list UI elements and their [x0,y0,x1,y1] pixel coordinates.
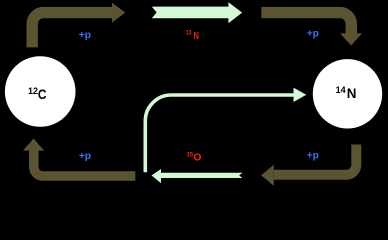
arrow up into 12C (bottom-left olive bent arrow) [23,139,135,177]
arrow 13N beta-decay (top green notched arrow) [152,2,242,23]
arrow 15O decay (bottom green notched arrow, pointing left) [152,169,243,183]
svg-text:+p: +p [307,151,319,162]
svg-text:+p: +p [79,30,91,41]
svg-text:N: N [194,31,199,42]
label 13N (red) [186,31,199,42]
svg-text:14: 14 [336,85,346,95]
svg-text:+p: +p [307,29,319,40]
arrow +p to 14N (top-right olive bent arrow) [261,13,362,46]
node 14N (white circle) [313,59,382,128]
node 12C (white circle) [5,56,76,127]
svg-text:13: 13 [186,31,192,37]
arrow 15N branch (thin green curved arrow into 14N) [145,88,306,173]
svg-text:12: 12 [28,86,38,96]
arrow 14N down-left (bottom-right olive bent arrow) [261,145,356,186]
svg-text:N: N [347,85,357,101]
label 15O (red) [186,152,201,164]
svg-text:C: C [38,86,47,102]
svg-text:O: O [193,152,201,164]
arrow 12C +p (top-left olive bent arrow) [32,3,125,48]
svg-text:+p: +p [79,151,91,162]
